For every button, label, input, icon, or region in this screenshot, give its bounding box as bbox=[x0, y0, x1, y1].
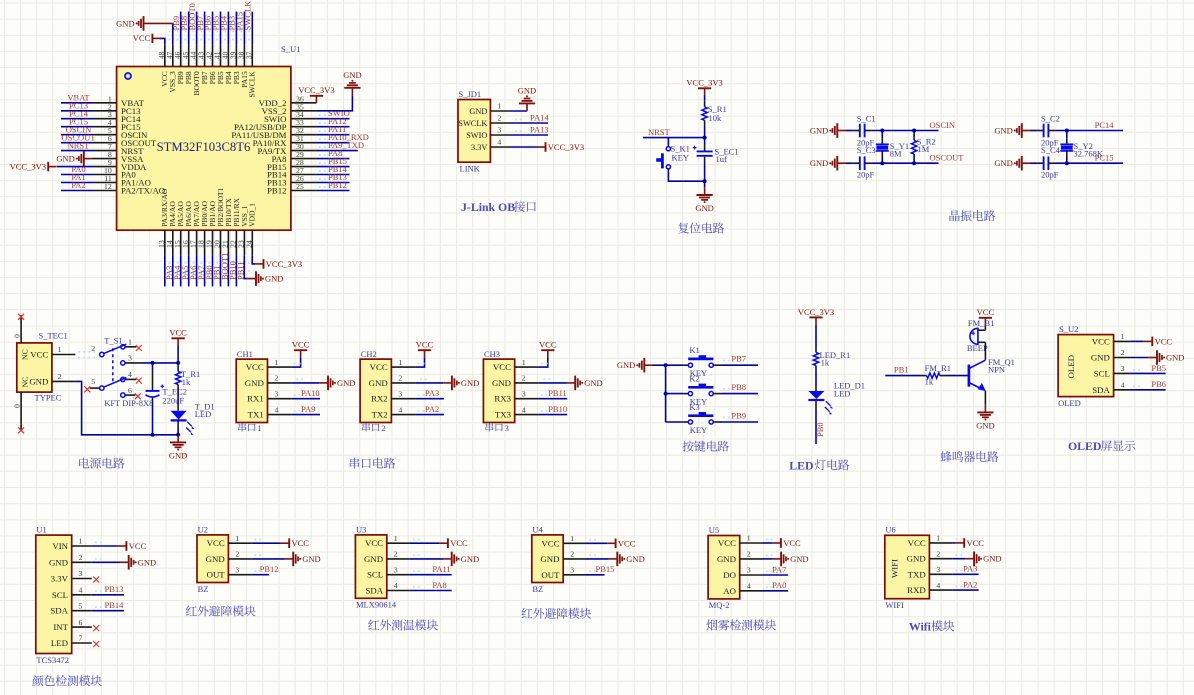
wire emitter to ground bbox=[984, 391, 986, 405]
svg-text:GND: GND bbox=[245, 378, 264, 388]
S_U2 pin 3 SCL bbox=[1114, 372, 1131, 374]
wire/net PA14 (S_JD1 pin2) bbox=[511, 122, 549, 124]
resistor S_R2 1M bbox=[913, 131, 915, 138]
S_JD1 pin 4 3.3V bbox=[490, 146, 510, 148]
svg-text:PB11: PB11 bbox=[548, 388, 567, 398]
wire TEC1 VCC to switch (snap dots) bbox=[78, 351, 80, 353]
svg-text:KEY: KEY bbox=[672, 152, 689, 162]
S_TEC1 shell pin bottom (0) bbox=[20, 392, 22, 430]
U6 pin 3 TXD bbox=[929, 573, 952, 575]
crystal S_Y1 8M bbox=[881, 131, 883, 139]
CH1 pin 3 RX1 bbox=[268, 398, 292, 400]
U2 pin 3 OUT bbox=[228, 574, 251, 576]
wire/net PB12 (U2 pin3) bbox=[251, 574, 269, 576]
wire/net PB5 (U1 pin 41) bbox=[220, 12, 222, 45]
ground at U5 pin2 bbox=[772, 558, 781, 560]
wire/net PA7 (U1 pin 17) bbox=[196, 255, 198, 286]
S_U2 pin 2 GND bbox=[1114, 357, 1131, 359]
wire/net OSCIN (U1 pin 5) bbox=[61, 134, 93, 136]
svg-text:0: 0 bbox=[13, 404, 22, 408]
svg-text:3: 3 bbox=[398, 389, 402, 398]
svg-text:PB10: PB10 bbox=[548, 404, 567, 414]
svg-text:U3: U3 bbox=[356, 524, 366, 534]
buzzer FM_B1 BEEP bbox=[984, 325, 986, 330]
svg-text:6: 6 bbox=[79, 618, 83, 627]
CH3 pin 2 GND bbox=[515, 382, 539, 384]
svg-text:VCC: VCC bbox=[450, 538, 468, 548]
module U4 body bbox=[532, 535, 563, 583]
svg-text:1: 1 bbox=[522, 358, 526, 367]
svg-text:RX2: RX2 bbox=[371, 394, 388, 404]
svg-text:25: 25 bbox=[296, 182, 304, 191]
svg-text:SWIO: SWIO bbox=[466, 131, 487, 140]
designator suffix serial-2 bbox=[362, 423, 370, 432]
U3 pin 1 VCC bbox=[387, 542, 410, 544]
svg-text:2: 2 bbox=[497, 114, 501, 123]
CH2 pin 3 RX2 bbox=[391, 398, 415, 400]
junction cap branch bbox=[151, 361, 155, 365]
U6 pin 1 VCC bbox=[929, 542, 952, 544]
designator suffix serial-1 bbox=[238, 423, 246, 432]
dotted snap marks below U1 bbox=[169, 262, 171, 264]
svg-text:3: 3 bbox=[936, 565, 940, 574]
U2 pin 1 VCC bbox=[228, 542, 251, 544]
svg-text:VCC_3V3: VCC_3V3 bbox=[266, 259, 302, 269]
junction at Y1/C1 bbox=[880, 129, 884, 133]
U2 pin 2 GND bbox=[228, 558, 251, 560]
wire R1 to NRST node bbox=[704, 127, 706, 138]
U4 pin 2 GND bbox=[563, 558, 586, 560]
U1 pin 44 BOOT0 bbox=[196, 44, 198, 66]
svg-text:220uF: 220uF bbox=[162, 396, 184, 406]
wire U6 pin2 to ground bbox=[952, 558, 965, 560]
svg-text:VCC: VCC bbox=[292, 538, 310, 548]
U1 pin 41 PB5 bbox=[220, 44, 222, 66]
U1 pin 36 VDD_2 bbox=[291, 102, 317, 104]
svg-text:NPN: NPN bbox=[988, 365, 1005, 375]
CH1 pin 4 TX1 bbox=[268, 414, 292, 416]
svg-text:GND: GND bbox=[717, 554, 736, 564]
U5 pin 1 VCC bbox=[740, 542, 763, 544]
capacitor S_C1 20pF bbox=[846, 130, 853, 132]
junction VCC/switch bbox=[176, 361, 180, 365]
caption crystal circuit bbox=[949, 210, 959, 221]
U1 pin 17 PA7/AO bbox=[196, 230, 198, 255]
svg-text:TX2: TX2 bbox=[372, 410, 388, 420]
svg-text:0: 0 bbox=[13, 334, 22, 338]
wire/net PA9 (CH1 pin4) bbox=[291, 414, 320, 416]
module U5 body bbox=[708, 536, 740, 599]
svg-text:PA2/TX/AO: PA2/TX/AO bbox=[121, 186, 165, 196]
U1 pin 27 PB14 bbox=[291, 174, 317, 176]
S_TEC1 pin 1 VCC bbox=[52, 354, 76, 356]
svg-text:1: 1 bbox=[128, 338, 132, 347]
junction at Y2 crystal bottom bbox=[1065, 161, 1069, 165]
no-connect stub bbox=[93, 641, 99, 647]
svg-text:FM_R1: FM_R1 bbox=[925, 363, 951, 373]
wire/net PB0 below LED bbox=[815, 410, 817, 444]
svg-text:4: 4 bbox=[79, 586, 83, 595]
CH2 pin 2 GND bbox=[391, 382, 415, 384]
svg-text:PA11: PA11 bbox=[432, 564, 450, 574]
svg-text:GND: GND bbox=[994, 158, 1012, 168]
svg-text:GND: GND bbox=[56, 154, 74, 164]
svg-text:PA3: PA3 bbox=[425, 388, 439, 398]
svg-text:GND: GND bbox=[138, 557, 156, 567]
svg-text:SCL: SCL bbox=[367, 570, 383, 580]
wire/net OSCOUT (U1 pin 6) bbox=[61, 142, 93, 144]
svg-text:3: 3 bbox=[1121, 364, 1125, 373]
svg-text:1k: 1k bbox=[821, 357, 830, 367]
wire/net PA10_RXD (U1 pin 31) bbox=[316, 142, 349, 144]
wire/net PA15 (U1 pin 38) bbox=[243, 12, 245, 45]
wire/net PB7 (K1) bbox=[713, 364, 722, 366]
junction at R2 top bbox=[912, 129, 916, 133]
svg-text:VCC: VCC bbox=[292, 340, 310, 350]
connector S_TEC1 body TYPEC bbox=[17, 343, 52, 392]
svg-text:S_TEC1: S_TEC1 bbox=[39, 331, 68, 341]
junction at Y2/C3 bbox=[880, 161, 884, 165]
svg-text:NC: NC bbox=[21, 349, 30, 360]
U1 pin 45 PB8 bbox=[188, 44, 190, 66]
svg-text:VCC: VCC bbox=[783, 538, 801, 548]
svg-text:PB1: PB1 bbox=[894, 365, 909, 375]
U1 pin 32 PA11/USB/DM bbox=[291, 134, 317, 136]
ground at S_C4 bbox=[1022, 162, 1031, 164]
wire/net PB15 (U4 pin3) bbox=[586, 574, 605, 576]
svg-text:TX3: TX3 bbox=[495, 410, 512, 420]
svg-text:2: 2 bbox=[381, 424, 385, 433]
U1 pin 4 SCL bbox=[72, 594, 92, 596]
CH2 pin 4 TX2 bbox=[391, 414, 415, 416]
svg-text:SCL: SCL bbox=[1094, 368, 1110, 378]
svg-text:3: 3 bbox=[235, 565, 239, 574]
svg-text:GND: GND bbox=[492, 378, 511, 388]
wire S_U2 pin2 to ground bbox=[1130, 357, 1148, 359]
svg-text:PA8: PA8 bbox=[432, 580, 446, 590]
svg-text:2: 2 bbox=[747, 550, 751, 559]
svg-text:U2: U2 bbox=[198, 524, 208, 534]
svg-text:VCC: VCC bbox=[169, 328, 187, 338]
wire R1 to LED bbox=[177, 391, 179, 405]
U1 pin 42 PB6 bbox=[212, 44, 214, 66]
svg-text:OSCOUT: OSCOUT bbox=[930, 153, 965, 163]
U1 pin 1 VBAT bbox=[93, 102, 117, 104]
wire/net PB4 (U1 pin 40) bbox=[227, 12, 229, 45]
svg-text:2: 2 bbox=[58, 372, 62, 381]
wire/net PB14 (U1 pin 27) bbox=[316, 174, 349, 176]
svg-text:PB7: PB7 bbox=[731, 354, 746, 364]
svg-text:LINK: LINK bbox=[460, 164, 481, 174]
svg-text:AO: AO bbox=[723, 586, 736, 596]
svg-text:PB8: PB8 bbox=[731, 382, 746, 392]
wire CH2 pin2 to ground bbox=[415, 382, 443, 384]
wire/net PB9 (U1 pin 46) bbox=[180, 12, 182, 45]
wire/net PA0 (U5 pin4) bbox=[763, 590, 789, 592]
svg-text:2: 2 bbox=[522, 374, 526, 383]
svg-text:VCC: VCC bbox=[539, 340, 557, 350]
U1 pin 5 OSCIN bbox=[93, 134, 117, 136]
svg-text:VCC: VCC bbox=[365, 538, 383, 548]
svg-text:PA2: PA2 bbox=[71, 180, 85, 190]
U1 pin 15 PA5/AO bbox=[180, 230, 182, 255]
header CH2 body bbox=[360, 359, 391, 422]
wire/net PA2 (U6 pin4) bbox=[952, 589, 978, 591]
CH1 pin 1 VCC bbox=[268, 366, 292, 368]
wire/net PA1 (U1 pin 11) bbox=[61, 182, 93, 184]
U1 pin 9 VDDA bbox=[93, 166, 117, 168]
resistor LED_R1 1k bbox=[815, 347, 817, 353]
wire CH3 pin1 to VCC bbox=[538, 357, 547, 367]
wire C1 to OSCIN bbox=[872, 130, 939, 132]
wire/net PA7 (U5 pin3) bbox=[763, 574, 789, 576]
wire/net PA8 (U1 pin 29) bbox=[316, 158, 349, 160]
svg-text:4: 4 bbox=[1121, 381, 1125, 390]
U5 pin 2 GND bbox=[740, 558, 763, 560]
wire/net PA4 (U1 pin 14) bbox=[172, 255, 174, 286]
U1 pin 2 PC13 bbox=[93, 110, 117, 112]
wire/net PC14 (U1 pin 3) bbox=[61, 118, 93, 120]
caption buzzer circuit bbox=[940, 451, 951, 462]
ground at U1 pin 35 bbox=[351, 88, 353, 96]
capacitor T_EC2 220uF bbox=[152, 363, 154, 371]
svg-text:VCC: VCC bbox=[967, 538, 985, 548]
svg-text:NRST: NRST bbox=[648, 127, 671, 137]
svg-text:VCC: VCC bbox=[977, 307, 995, 317]
svg-text:PC14: PC14 bbox=[1095, 120, 1115, 130]
U1 pin 20 PB2/BOOT1 bbox=[220, 230, 222, 255]
wire/net PB13 (U1 pin 26) bbox=[316, 182, 349, 184]
svg-text:GND: GND bbox=[364, 554, 383, 564]
caption power circuit bbox=[79, 458, 89, 469]
svg-text:PA2: PA2 bbox=[425, 404, 439, 414]
wire/net PA0 (U1 pin 10) bbox=[61, 174, 93, 176]
svg-text:PA0: PA0 bbox=[772, 580, 786, 590]
svg-text:GND: GND bbox=[116, 18, 134, 28]
svg-text:VCC: VCC bbox=[493, 362, 511, 372]
svg-text:LED: LED bbox=[789, 458, 813, 472]
svg-text:GND: GND bbox=[617, 360, 635, 370]
svg-text:LED: LED bbox=[51, 638, 68, 648]
wire/net PB10 (U1 pin 21) bbox=[227, 255, 229, 286]
svg-text:VCC: VCC bbox=[129, 541, 147, 551]
caption smoke detect module bbox=[706, 620, 717, 631]
wire/net PA3 (U6 pin3) bbox=[952, 573, 978, 575]
svg-text:SDA: SDA bbox=[50, 606, 68, 616]
svg-text:3: 3 bbox=[128, 354, 132, 363]
svg-text:BZ: BZ bbox=[198, 584, 209, 594]
svg-text:U6: U6 bbox=[885, 525, 895, 535]
svg-text:Wifi: Wifi bbox=[909, 619, 932, 633]
wire switch bottom to gnd node bbox=[668, 172, 704, 182]
capacitor S_C4 20pF bbox=[1031, 162, 1038, 164]
U1 pin 26 PB13 bbox=[291, 182, 317, 184]
module U2 body bbox=[197, 535, 228, 583]
wire U5 pin1 to VCC bbox=[763, 542, 773, 544]
svg-text:7: 7 bbox=[79, 634, 83, 643]
wire U5 pin2 to ground bbox=[763, 558, 773, 560]
svg-text:PA3: PA3 bbox=[963, 564, 977, 574]
U1 pin 12 PA2/TX/AO bbox=[93, 190, 117, 192]
mcu U1 pin-1 marker circle bbox=[125, 73, 131, 79]
U1 pin 6 OSCOUT bbox=[93, 142, 117, 144]
junction at Y2 crystal top bbox=[1065, 129, 1069, 133]
wire CH2 pin1 to VCC bbox=[415, 357, 424, 367]
svg-text:GND: GND bbox=[584, 378, 602, 388]
svg-text:CH2: CH2 bbox=[361, 349, 377, 359]
svg-text:K1: K1 bbox=[689, 345, 699, 355]
ground at key circuit bbox=[644, 364, 653, 366]
svg-text:OLED: OLED bbox=[1068, 439, 1101, 453]
U1 pin 33 PA12/USB/DP bbox=[291, 126, 317, 128]
svg-text:PA14: PA14 bbox=[530, 113, 549, 123]
svg-text:SWCLK: SWCLK bbox=[458, 119, 487, 128]
U1 pin 3 PC14 bbox=[93, 118, 117, 120]
wire S_JD1 pin1 to ground bbox=[511, 110, 528, 112]
svg-text:GND: GND bbox=[369, 378, 388, 388]
wire/net NRST (U1 pin 7) bbox=[61, 150, 93, 152]
switch pin6 stub with X bbox=[125, 394, 135, 396]
wire/net SWIO (U1 pin 34) bbox=[316, 118, 349, 120]
U6 pin 2 GND bbox=[929, 558, 952, 560]
svg-text:10k: 10k bbox=[709, 113, 723, 123]
U1 pin 48 VCC bbox=[164, 44, 166, 66]
svg-text:SCL: SCL bbox=[52, 590, 68, 600]
svg-text:4: 4 bbox=[398, 405, 402, 414]
svg-text:PB6: PB6 bbox=[1151, 379, 1166, 389]
svg-text:PB0: PB0 bbox=[815, 422, 825, 437]
svg-text:3.3V: 3.3V bbox=[51, 574, 69, 584]
svg-text:1: 1 bbox=[398, 358, 402, 367]
module U3 body bbox=[355, 535, 386, 598]
svg-text:PB12: PB12 bbox=[267, 186, 287, 196]
svg-text:GND: GND bbox=[1166, 353, 1184, 363]
ground at U1 pin 47 VSS_3 bbox=[172, 23, 174, 44]
power VCC_3V3 at U1 pin 9 VDDA bbox=[57, 166, 93, 168]
power VCC above buzzer bbox=[984, 318, 986, 325]
ground at S_C1 bbox=[837, 130, 846, 132]
svg-text:GND: GND bbox=[206, 554, 225, 564]
U1 pin 25 PB12 bbox=[291, 190, 317, 192]
wire/net PB0 (U1 pin 18) bbox=[204, 255, 206, 286]
CH1 pin 2 GND bbox=[268, 382, 292, 384]
junction key rail K2 bbox=[664, 392, 668, 396]
caption key circuit bbox=[682, 441, 693, 452]
svg-text:TX1: TX1 bbox=[248, 410, 264, 420]
svg-text:VCC_3V3: VCC_3V3 bbox=[10, 162, 46, 172]
svg-text:PB15: PB15 bbox=[596, 564, 615, 574]
wire/net PB13 (U1) bbox=[92, 594, 124, 596]
svg-text:8M: 8M bbox=[890, 149, 902, 159]
wire/net PB8 (U1 pin 45) bbox=[188, 12, 190, 45]
S_JD1 pin 3 SWIO bbox=[490, 134, 510, 136]
svg-text:TCS3472: TCS3472 bbox=[36, 655, 69, 665]
wire to ground bbox=[704, 181, 706, 187]
ground below buzzer bbox=[984, 405, 986, 413]
wire/net PA11 (U1 pin 32) bbox=[316, 134, 349, 136]
wire U4 pin2 to ground bbox=[586, 558, 609, 560]
LED T_D1 bbox=[177, 405, 179, 411]
svg-text:PB12: PB12 bbox=[260, 564, 279, 574]
wire/net PA13 (S_JD1 pin3) bbox=[511, 134, 549, 136]
svg-text:VCC_3V3: VCC_3V3 bbox=[548, 142, 584, 152]
svg-text:VCC: VCC bbox=[30, 350, 48, 360]
wire gnd to key rail bbox=[653, 364, 666, 366]
wire/net PB7 (U1 pin 43) bbox=[204, 12, 206, 45]
wire/net PB11 (U1 pin 22) bbox=[235, 255, 237, 286]
svg-text:GND: GND bbox=[810, 158, 828, 168]
power VCC_3V3 at U1 pin 24 VDD_1 bbox=[252, 255, 255, 264]
wire/net PB11 (CH3 pin3) bbox=[538, 398, 567, 400]
wire LED_R1 to LED_D1 bbox=[815, 372, 817, 386]
power VCC_3V3 above reset circuit bbox=[704, 88, 706, 95]
pushbutton S_K1 KEY bbox=[667, 144, 669, 147]
wire U1 pin2 to ground bbox=[92, 561, 120, 563]
svg-text:3: 3 bbox=[505, 424, 509, 433]
svg-text:PB14: PB14 bbox=[105, 600, 125, 610]
svg-text:GND: GND bbox=[469, 107, 487, 116]
svg-text:NRST: NRST bbox=[68, 140, 91, 150]
svg-text:PB13: PB13 bbox=[105, 584, 124, 594]
U1 pin 5 SDA bbox=[72, 610, 92, 612]
U1 pin 30 PA9/TX bbox=[291, 150, 317, 152]
mcu U1 body STM32F103C8T6 bbox=[117, 67, 291, 231]
wire/net PB6 (U1 pin 42) bbox=[212, 12, 214, 45]
svg-text:NC: NC bbox=[21, 377, 30, 388]
svg-text:KEY: KEY bbox=[690, 425, 707, 435]
ground at U4 pin2 bbox=[609, 558, 618, 560]
designator suffix serial-3 bbox=[486, 423, 494, 432]
svg-text:GND: GND bbox=[983, 554, 1001, 564]
U1 pin 4 PC15 bbox=[93, 126, 117, 128]
svg-text:S_U2: S_U2 bbox=[1059, 324, 1078, 334]
U1 pin 23 VSS_1 bbox=[243, 230, 245, 255]
pushbutton K3 KEY bbox=[666, 421, 684, 423]
svg-text:LED: LED bbox=[834, 389, 851, 399]
svg-text:5: 5 bbox=[91, 377, 95, 386]
svg-text:2: 2 bbox=[235, 550, 239, 559]
svg-text:OUT: OUT bbox=[541, 570, 560, 580]
svg-text:3: 3 bbox=[497, 126, 501, 135]
wire/net PA2 (U1 pin 12) bbox=[61, 190, 93, 192]
svg-text:4: 4 bbox=[275, 405, 279, 414]
svg-text:KFT DIP-8X8: KFT DIP-8X8 bbox=[104, 398, 153, 408]
crystal S_Y2 32.768K bbox=[1066, 131, 1068, 139]
pushbutton K1 KEY bbox=[666, 364, 684, 366]
svg-text:SDA: SDA bbox=[1092, 385, 1110, 395]
U1 pin 31 PA10/RX bbox=[291, 142, 317, 144]
U1 pin 2 GND bbox=[72, 561, 92, 563]
capacitor S_EC1 1uf bbox=[704, 138, 706, 144]
svg-text:GND: GND bbox=[626, 554, 644, 564]
U1 pin 19 PB1/AO bbox=[212, 230, 214, 255]
svg-text:GND: GND bbox=[907, 554, 926, 564]
svg-text:GND: GND bbox=[1091, 353, 1110, 363]
header CH1 body bbox=[236, 359, 267, 422]
S_U2 pin 1 VCC bbox=[1114, 340, 1131, 342]
svg-text:20pF: 20pF bbox=[1041, 169, 1059, 179]
svg-text:2: 2 bbox=[398, 374, 402, 383]
power VCC_3V3 at U1 pin 36 VDD_2 bbox=[315, 96, 317, 103]
svg-text:WIFI: WIFI bbox=[885, 600, 904, 610]
svg-text:S_U1: S_U1 bbox=[281, 44, 300, 54]
capacitor S_C2 20pF bbox=[1031, 130, 1038, 132]
svg-text:GND: GND bbox=[994, 126, 1012, 136]
ground at U2 pin2 bbox=[285, 558, 294, 560]
wire C3 to OSCOUT bbox=[872, 162, 939, 164]
svg-text:K2: K2 bbox=[689, 373, 699, 383]
U1 pin 13 PA3/RX/AO bbox=[164, 230, 166, 255]
